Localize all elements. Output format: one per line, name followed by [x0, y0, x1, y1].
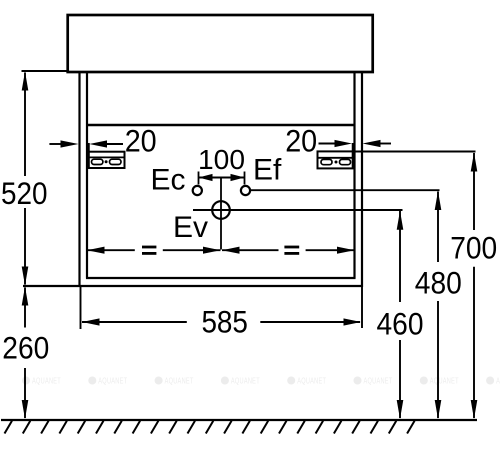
hole Ec circle	[193, 186, 202, 195]
dim 100: extension ticks	[198, 172, 200, 185]
hole Ev circle	[212, 201, 230, 219]
svg-text:100: 100	[198, 144, 245, 175]
dim 20 right: inside arrow	[319, 140, 353, 147]
svg-text:AQUANET: AQUANET	[364, 376, 393, 386]
dim 460 vertical line	[397, 211, 404, 419]
cabinet bottom outer line with left extension	[23, 285, 362, 287]
svg-text:AQUANET: AQUANET	[165, 376, 194, 386]
cabinet left side panel	[78, 72, 80, 287]
right drawer runner plate	[318, 151, 353, 168]
svg-text:AQUANET: AQUANET	[297, 376, 326, 386]
Ev height reference line (460)	[193, 209, 403, 211]
svg-text:AQUANET: AQUANET	[496, 376, 500, 386]
dim 700 vertical line	[471, 153, 478, 420]
watermark row	[22, 376, 500, 386]
svg-text:AQUANET: AQUANET	[98, 376, 127, 386]
dim 520 top extension line	[22, 70, 67, 72]
Ev vertical centerline	[220, 178, 222, 250]
washbasin countertop	[68, 15, 373, 72]
dim 585 left extension line	[80, 287, 82, 329]
dim 480 vertical line	[435, 191, 442, 419]
svg-text:Ec: Ec	[151, 164, 186, 197]
equals label left	[142, 246, 156, 255]
dim 20 right: outside arrow	[363, 140, 392, 147]
countertop apron rail line	[86, 124, 356, 127]
dim 585 line with arrows	[82, 318, 361, 325]
dim 20 left: outside arrow	[49, 140, 78, 147]
hinge height reference line (700)	[353, 151, 476, 153]
svg-text:700: 700	[450, 230, 497, 266]
dim 260 vertical line	[22, 287, 29, 420]
svg-text:520: 520	[1, 175, 48, 211]
svg-text:585: 585	[201, 304, 248, 340]
dim 585 right extension line	[361, 287, 363, 328]
svg-text:480: 480	[415, 264, 462, 300]
svg-text:AQUANET: AQUANET	[231, 376, 260, 386]
left drawer runner plate	[89, 152, 125, 168]
Ef height reference line (480)	[250, 189, 440, 191]
equal spacing dim right segment	[222, 247, 355, 254]
svg-text:Ef: Ef	[253, 154, 282, 187]
svg-text:Ev: Ev	[173, 211, 208, 244]
cabinet right side panel	[353, 72, 355, 279]
svg-text:260: 260	[2, 330, 49, 366]
svg-text:AQUANET: AQUANET	[32, 376, 61, 386]
dim 20 left: inside arrow	[89, 140, 123, 147]
equal spacing dim left segment	[87, 247, 221, 254]
dim 20 right: extension stub at runner edge	[352, 143, 354, 152]
hole Ef circle	[241, 186, 250, 195]
dim 520 vertical line	[22, 72, 29, 286]
svg-text:460: 460	[377, 305, 424, 341]
dim 100: double arrow	[199, 174, 245, 181]
cabinet bottom panel inner line	[86, 277, 356, 279]
floor line	[1, 419, 477, 421]
svg-text:20: 20	[125, 123, 157, 159]
svg-text:20: 20	[285, 123, 317, 159]
equals label right	[284, 246, 299, 255]
floor hatching	[5, 421, 415, 434]
dim 20 left: extension stub at runner edge	[88, 143, 90, 152]
svg-text:AQUANET: AQUANET	[430, 376, 459, 386]
